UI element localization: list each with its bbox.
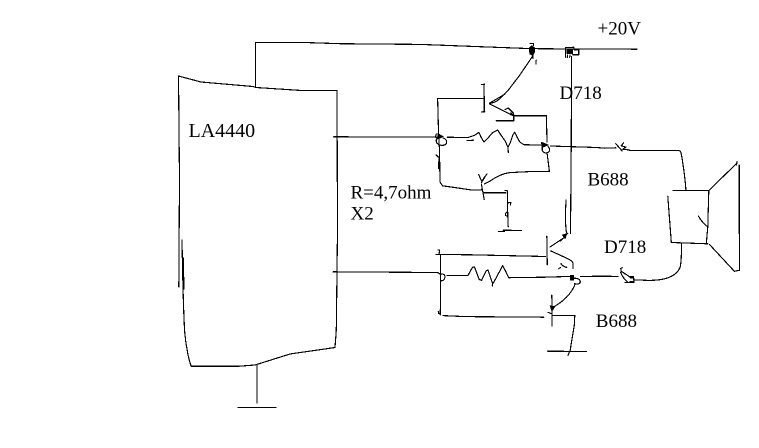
LA4440 pin stub (double line on left edge) <box>183 258 185 289</box>
stray vertical stroke left of supply line <box>566 200 568 234</box>
wire: Q1 emitter to right rail corner <box>514 115 547 117</box>
wire: right rail junction down to emitter wire of Q2 <box>547 153 549 172</box>
wire: Q1 emitter stub below arrow <box>496 116 514 121</box>
svg-text:D718: D718 <box>560 83 602 104</box>
wire: from box pin1 to left junction <box>334 136 438 138</box>
transistor Q1 D718 (upper) base bar <box>482 84 485 112</box>
wire: output wire right toward speaker (upper) <box>550 146 616 148</box>
svg-text:X2: X2 <box>351 204 374 225</box>
Q4 collector path down <box>553 316 575 356</box>
ground (lower pair) <box>548 350 587 352</box>
wire: Q3 emitter diagonal down to output node <box>551 251 574 269</box>
loop scribble on upper output wire <box>616 143 630 151</box>
wire: box pin2 to lower-left junction <box>333 271 437 274</box>
wire: long vertical supply line down to Q3 <box>571 57 572 234</box>
transistor Q2 B688 (upper) base bar <box>481 184 484 199</box>
svg-text:+20V: +20V <box>598 19 642 40</box>
wire: box top pin up to +20V rail <box>254 43 256 88</box>
svg-text:R=4,7ohm: R=4,7ohm <box>351 183 432 204</box>
wire: output wire right toward speaker (lower) <box>581 275 619 277</box>
svg-text:D718: D718 <box>604 237 646 258</box>
loop scribble on lower output wire <box>621 268 634 283</box>
op-amp U1 LA4440 box outline <box>179 76 338 366</box>
wire: Q4 base wire from lower rail <box>443 316 544 318</box>
rail bottom tick <box>438 311 440 313</box>
wire: Q2 emitter curve from right rail <box>485 171 550 184</box>
ground (LA4440) <box>238 407 276 409</box>
wire: +20V rail <box>255 43 637 50</box>
wire: Q3 collector diagonal with arrowhead <box>550 234 567 248</box>
svg-text:B688: B688 <box>588 170 629 191</box>
wire: continue to speaker top corner <box>630 151 686 191</box>
wire: Q2 base from left rail <box>440 182 482 190</box>
junction arrow on +20V rail (solid) <box>529 44 536 64</box>
node D: lower output junction (square + loop) at x572,y277 <box>571 275 581 284</box>
wire: Q4 emitter curve from output node with arrowhead <box>548 285 575 314</box>
transistor Q4 B688 (lower) base bar <box>551 295 553 326</box>
Q1 collector diagonal <box>490 94 506 103</box>
node B: right junction (arrow + loop) at x546,y145 <box>542 142 550 153</box>
wire: right rail down to junction <box>545 116 548 142</box>
svg-text:LA4440: LA4440 <box>189 120 256 142</box>
wire: box bottom ground stub <box>256 365 258 403</box>
speaker coil line <box>698 216 708 227</box>
wire: upper-left vertical rail through junction <box>438 98 440 182</box>
ground (upper pair) <box>498 230 521 231</box>
wire: lower loop top wire to Q3 base <box>436 254 545 256</box>
Q1 emitter diagonal with arrow <box>490 104 515 116</box>
speaker LS1: frame box <box>668 190 709 243</box>
wire: diagonal from +20V arrow to Q1 collector <box>490 56 534 104</box>
svg-text:B688: B688 <box>596 311 637 332</box>
node C: lower-left junction loop at x441,y277 <box>438 272 445 280</box>
node A: left junction (arrow + loop) at x438,y137 <box>435 134 446 146</box>
hook marks beside left rail <box>436 155 438 157</box>
wire: lower-left vertical rail <box>439 255 441 315</box>
transistor Q3 D718 (lower) base bar <box>546 236 549 264</box>
rail top tick <box>438 250 440 254</box>
Q2 collector path down <box>484 191 511 227</box>
resistor R2 (lower 4.7 ohm) <box>447 266 570 286</box>
resistor R1 (upper 4.7 ohm) <box>447 130 541 152</box>
speaker cone <box>709 162 739 272</box>
junction square at +20V / vertical supply line <box>566 47 579 57</box>
wire: continue to speaker bottom corner <box>634 244 681 281</box>
wire: Q1 base wire from left rail <box>438 97 485 99</box>
Q2 emitter arrowhead (points into bar) <box>479 174 487 183</box>
